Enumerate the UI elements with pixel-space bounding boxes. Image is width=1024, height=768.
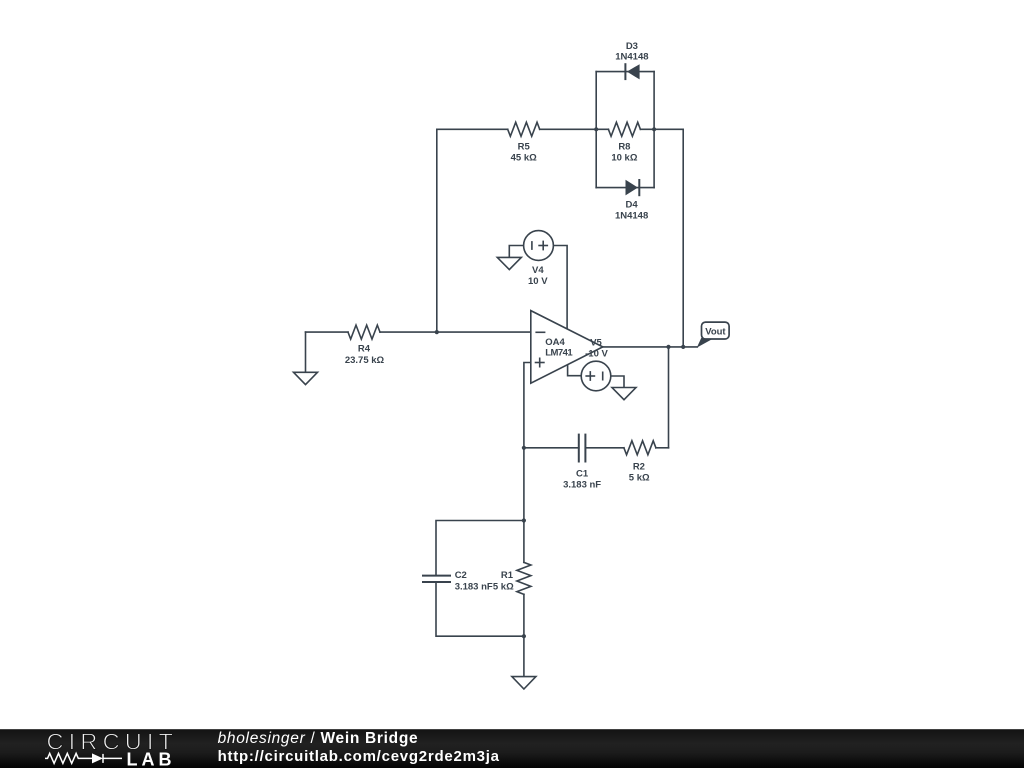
node dot (C2/R1 bottom)	[522, 634, 526, 638]
svg-text:C2: C2	[455, 570, 467, 581]
wire op-amp plus input down	[524, 363, 531, 521]
svg-text:OA4: OA4	[545, 337, 565, 348]
svg-text:3.183 nF: 3.183 nF	[563, 479, 601, 490]
ground (R4)	[294, 372, 318, 384]
capacitor C2 plates	[422, 576, 451, 582]
svg-text:V5: V5	[590, 338, 602, 349]
label OA4	[545, 337, 573, 359]
svg-text:1N4148: 1N4148	[615, 52, 648, 63]
label C1	[563, 469, 601, 491]
svg-text:R1: R1	[501, 570, 514, 581]
svg-text:-10 V: -10 V	[585, 348, 608, 359]
wire V5 right lead to ground	[611, 376, 624, 388]
node dot (C1 branch)	[522, 446, 526, 450]
label R8	[611, 142, 637, 164]
wire D3 top horizontal	[596, 71, 654, 73]
svg-text:1N4148: 1N4148	[615, 210, 648, 221]
node dot (output feedback)	[666, 345, 670, 349]
label D4	[615, 200, 648, 222]
wire D4 left vertical	[595, 129, 597, 187]
wire R1 top lead	[523, 521, 525, 563]
wire R1 bottom lead	[523, 594, 525, 636]
ground (V5)	[612, 388, 636, 400]
label R2	[629, 462, 650, 484]
wire op-amp V- supply to V5	[568, 365, 582, 375]
ground (V4)	[497, 257, 521, 269]
svg-text:C1: C1	[576, 469, 589, 480]
svg-text:45 kΩ: 45 kΩ	[511, 153, 537, 164]
wire between R5 and R8	[540, 128, 609, 130]
footer logo resistor-diode glyph	[45, 753, 122, 763]
flag Vout	[697, 322, 729, 348]
wire C1 to R2	[585, 447, 624, 449]
svg-text:V4: V4	[532, 265, 544, 276]
wire right rail	[682, 129, 684, 347]
resistor R4	[348, 325, 380, 339]
svg-text:5 kΩ: 5 kΩ	[493, 581, 514, 592]
svg-text:10 kΩ: 10 kΩ	[611, 153, 637, 164]
svg-text:R5: R5	[518, 142, 531, 153]
wire node to C2 loop top	[436, 521, 524, 576]
wire left rail	[436, 129, 438, 332]
ground (bottom)	[512, 677, 536, 689]
wire V4 left lead	[509, 246, 523, 258]
resistor R8	[608, 122, 640, 136]
wire D3 right vertical	[653, 72, 655, 130]
node dot (R8 left)	[594, 127, 598, 131]
svg-text:5 kΩ: 5 kΩ	[629, 472, 650, 483]
wire D4 bottom horizontal	[596, 187, 654, 189]
svg-text:D4: D4	[626, 200, 639, 211]
wire V4 right lead to op-amp V+	[553, 246, 567, 331]
wire op-amp output	[603, 346, 698, 348]
node dot (output right rail)	[681, 345, 685, 349]
node dot (C2/R1 top)	[522, 518, 526, 522]
svg-text:http://circuitlab.com/cevg2rde: http://circuitlab.com/cevg2rde2m3ja	[218, 748, 500, 765]
svg-text:D3: D3	[626, 41, 638, 52]
wire C2 bottom to node	[436, 582, 524, 636]
svg-text:R8: R8	[618, 142, 630, 153]
label R5	[511, 142, 537, 164]
svg-text:3.183 nF: 3.183 nF	[455, 581, 493, 592]
capacitor C1 plates	[579, 434, 586, 463]
svg-text:10 V: 10 V	[528, 276, 548, 287]
wire bottom ground drop	[523, 636, 525, 676]
wire R2 to feedback vertical	[656, 447, 669, 449]
label C2	[455, 570, 493, 592]
svg-text:R4: R4	[358, 344, 371, 355]
wire D3 left vertical	[595, 72, 597, 130]
svg-text:LM741: LM741	[545, 348, 573, 359]
node dot (R8 right)	[652, 127, 656, 131]
resistor R1	[517, 562, 531, 594]
label D3	[615, 41, 648, 63]
wire D4 right vertical	[653, 129, 655, 187]
wire R4 ground drop	[305, 332, 307, 372]
label R4	[345, 344, 385, 366]
svg-text:Vout: Vout	[705, 327, 726, 338]
svg-text:23.75 kΩ: 23.75 kΩ	[345, 355, 385, 366]
diode D3	[625, 63, 639, 80]
svg-text:bholesinger / Wein Bridge: bholesinger / Wein Bridge	[218, 730, 419, 747]
wire feedback vertical	[668, 347, 670, 448]
node dot (left rail / R4)	[435, 330, 439, 334]
label V5	[585, 338, 608, 360]
svg-text:LAB: LAB	[127, 749, 176, 768]
labels	[345, 41, 650, 593]
wire top rail left segment	[437, 128, 508, 130]
wire R4 to op-amp minus input	[380, 331, 531, 333]
diode D4	[626, 179, 640, 196]
voltage source V4	[524, 231, 554, 261]
label R1	[493, 570, 514, 592]
resistor R5	[508, 122, 540, 136]
op-amp OA4	[531, 311, 603, 384]
resistor R2	[624, 441, 656, 455]
footer bar	[0, 729, 1024, 768]
voltage source V5	[581, 361, 611, 391]
wire top rail right segment	[640, 128, 683, 130]
svg-text:R2: R2	[633, 462, 645, 473]
wire node to C1	[524, 447, 579, 449]
wire R4 left lead to ground elbow	[306, 331, 349, 333]
label V4	[528, 265, 548, 287]
